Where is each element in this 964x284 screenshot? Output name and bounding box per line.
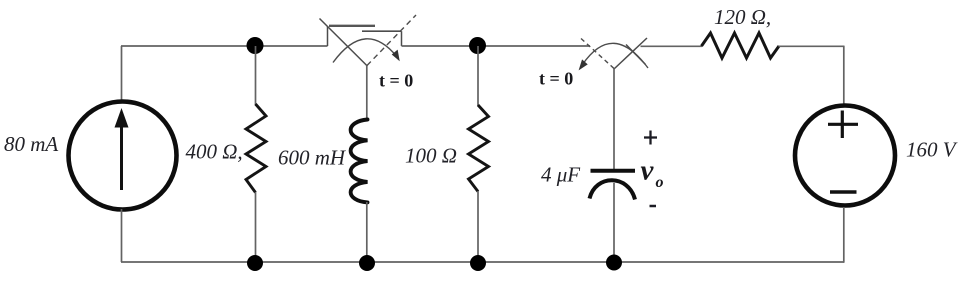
switch S1 right stub xyxy=(401,31,403,46)
svg-text:120 Ω,: 120 Ω, xyxy=(714,5,771,29)
wire: 400 ohm bottom lead xyxy=(255,192,257,262)
wire: top rail right segment xyxy=(641,45,703,47)
svg-text:o: o xyxy=(656,174,664,191)
svg-text:400 Ω,: 400 Ω, xyxy=(186,140,243,164)
switch S2 dashed closed position xyxy=(581,39,614,69)
wire: inductor bottom lead xyxy=(366,202,368,262)
resistor R3 120 ohm xyxy=(702,33,780,58)
switch S2 blade (open position) xyxy=(614,38,647,69)
wire: top rail middle segment xyxy=(402,45,591,47)
wire: from 120 ohm to right corner xyxy=(779,45,845,47)
current source I1 circle xyxy=(69,102,177,210)
node dot bottom A (400 ohm) xyxy=(247,255,263,271)
switch S1 open position dashed xyxy=(367,15,416,66)
switch S2 arc arrowhead xyxy=(580,60,587,69)
svg-text:160 V: 160 V xyxy=(906,138,958,162)
current source I1 arrow xyxy=(115,108,129,190)
label plus (vo) xyxy=(644,131,657,145)
switch S1 lower contact bar xyxy=(362,30,402,32)
wire: 100 ohm top lead xyxy=(477,46,479,106)
switch S2 motion arc xyxy=(583,43,649,68)
wire: capacitor bottom lead xyxy=(613,183,615,262)
wire: 400 ohm top lead xyxy=(255,46,257,105)
switch S2 contact tick xyxy=(626,45,646,65)
switch S1 left stub xyxy=(327,26,329,46)
wire: capacitor top lead from S2 pivot xyxy=(613,69,615,171)
capacitor C1 top plate xyxy=(591,169,636,173)
voltage source plus sign xyxy=(828,111,858,139)
label minus (vo) xyxy=(650,205,657,208)
node dot bottom B (inductor) xyxy=(359,255,375,271)
wire: right branch vertical top xyxy=(843,46,845,104)
resistor R2 100 ohm xyxy=(469,105,489,192)
wire: top rail left segment xyxy=(121,45,328,47)
wire: 100 ohm bottom lead xyxy=(477,191,479,262)
switch S1 motion arc xyxy=(333,39,398,63)
capacitor C1 bottom plate (curved) xyxy=(590,180,636,199)
wire: inductor top lead from S1 pivot xyxy=(366,66,368,121)
svg-text:v: v xyxy=(641,155,655,187)
switch S1 upper contact bar xyxy=(329,25,375,27)
switch S1 blade (closed position) xyxy=(320,19,368,67)
wire: left branch vertical top xyxy=(121,46,123,102)
svg-text:4 μF: 4 μF xyxy=(541,163,580,187)
resistor R1 400 ohm xyxy=(246,104,266,193)
svg-text:t = 0: t = 0 xyxy=(539,69,573,89)
svg-text:t = 0: t = 0 xyxy=(379,71,413,91)
switch S1 arc arrowhead xyxy=(393,51,400,61)
node dot bottom C (100 ohm) xyxy=(470,255,486,271)
voltage source minus sign xyxy=(830,190,857,193)
inductor L1 600 mH xyxy=(351,120,368,203)
wire: right branch vertical bottom xyxy=(843,207,845,263)
voltage source V1 circle xyxy=(795,106,895,206)
node dot top A (400 ohm) xyxy=(247,37,264,54)
wire: bottom rail xyxy=(121,261,844,263)
svg-text:600 mH: 600 mH xyxy=(278,146,347,170)
node dot top C (100 ohm) xyxy=(469,37,486,54)
svg-text:100 Ω: 100 Ω xyxy=(405,144,457,168)
node dot bottom D (capacitor) xyxy=(606,255,622,271)
svg-text:80 mA: 80 mA xyxy=(4,132,58,156)
wire: left branch vertical bottom xyxy=(121,209,123,262)
